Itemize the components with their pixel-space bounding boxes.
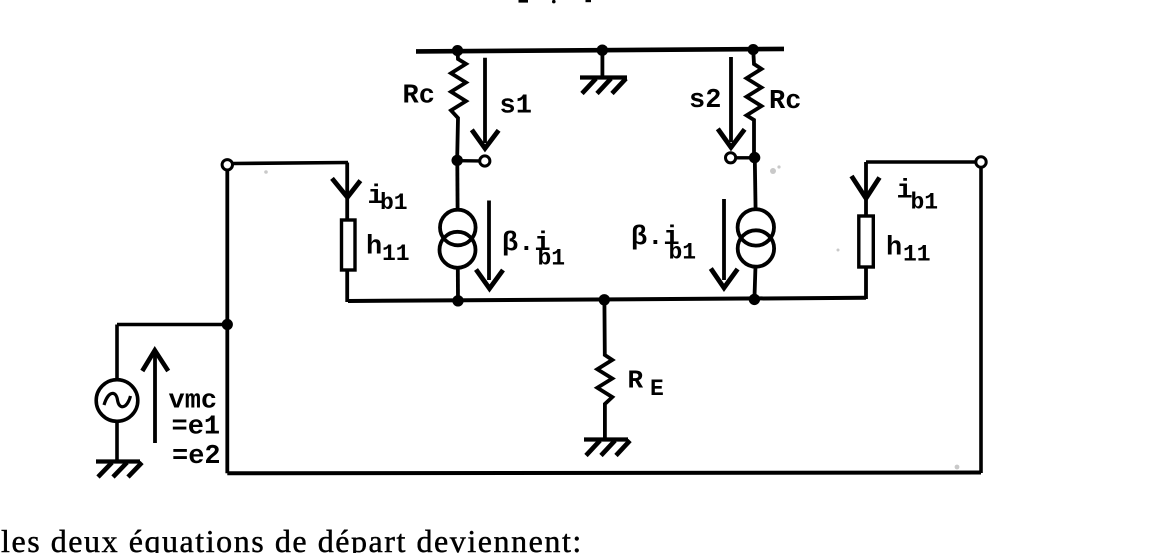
resistor RE <box>597 300 612 439</box>
svg-text:R: R <box>628 366 644 396</box>
current source B.ib1 (right, two circles) <box>738 209 775 267</box>
arrow s2 <box>718 57 745 147</box>
ground (below vmc) <box>96 462 142 478</box>
ground (below RE) <box>584 440 630 456</box>
svg-text:h: h <box>366 233 382 263</box>
svg-text:b1: b1 <box>911 190 939 216</box>
wire node to vmc source <box>117 323 227 327</box>
wire base right vertical into h11 <box>864 162 868 216</box>
svg-text:b1: b1 <box>538 246 566 272</box>
wire emitter rail <box>348 298 866 301</box>
arrow i b1 (right) <box>852 176 880 198</box>
current source B.ib1 (left, two circles) <box>440 210 476 268</box>
resistor Rc (right) <box>747 50 762 155</box>
terminal base left (open circle) <box>222 160 232 170</box>
scan speckles <box>264 165 959 469</box>
wire bottom rail <box>227 471 981 476</box>
cut-off text fragment top <box>519 0 592 3</box>
node s2 junction <box>749 152 760 163</box>
node vmc junction <box>222 319 233 330</box>
wire top supply rail <box>416 49 784 52</box>
terminal base right (open circle) <box>976 157 986 167</box>
svg-text:11: 11 <box>382 241 410 267</box>
svg-text:E: E <box>650 376 664 402</box>
node emitter right <box>749 294 760 305</box>
wire h11 to emitter rail (left) <box>345 270 349 302</box>
wire left outer vertical <box>225 170 229 473</box>
terminal s2 (open circle) <box>726 153 736 163</box>
resistor h11 (left, box) <box>342 220 356 270</box>
arrow s1 <box>472 58 499 149</box>
wire current source to emitter rail (right) <box>754 266 755 300</box>
svg-text:b1: b1 <box>380 190 408 216</box>
svg-text:Rc: Rc <box>403 82 435 112</box>
arrow B.ib1 (right) <box>711 199 738 288</box>
arrow vmc (up) <box>142 350 168 443</box>
wire collector to current source (left) <box>455 162 459 211</box>
svg-text:=e1: =e1 <box>172 413 221 443</box>
wire base left vertical into h11 <box>345 163 349 221</box>
svg-text:s2: s2 <box>689 86 721 116</box>
wire to s1 terminal <box>459 159 479 163</box>
source vmc (AC source) <box>96 380 138 422</box>
ground (top middle) <box>580 50 627 94</box>
node top-left collector <box>452 45 463 56</box>
node top-right collector <box>748 44 759 55</box>
svg-text:=e2: =e2 <box>172 442 221 472</box>
arrow i b1 (left) <box>332 178 360 197</box>
terminal s1 (open circle) <box>480 156 490 166</box>
wire current source to emitter rail (left) <box>456 267 460 301</box>
wire down to vmc source <box>115 325 119 381</box>
node top-middle ground <box>597 45 608 56</box>
svg-text:Rc: Rc <box>769 87 801 117</box>
wire vmc source to ground <box>115 421 119 461</box>
resistor Rc (left) <box>451 51 466 158</box>
wire s2 terminal to node <box>736 156 752 159</box>
node emitter middle (RE tap) <box>599 294 610 305</box>
svg-text:les deux équations de départ d: les deux équations de départ deviennent: <box>1 523 583 553</box>
wire right outer vertical <box>979 167 983 473</box>
resistor h11 (right, box) <box>859 216 874 267</box>
svg-text:b1: b1 <box>669 240 697 266</box>
node emitter left <box>452 295 463 306</box>
node s1 junction <box>452 155 463 166</box>
arrow B.ib1 (left) <box>476 201 503 289</box>
svg-text:s1: s1 <box>500 92 532 122</box>
wire h11 to emitter rail (right) <box>864 267 868 299</box>
wire base left horizontal <box>233 163 349 164</box>
wire collector to current source (right) <box>753 159 758 211</box>
wire base right horizontal <box>866 160 976 164</box>
svg-text:h: h <box>886 234 902 264</box>
svg-text:11: 11 <box>903 242 931 268</box>
